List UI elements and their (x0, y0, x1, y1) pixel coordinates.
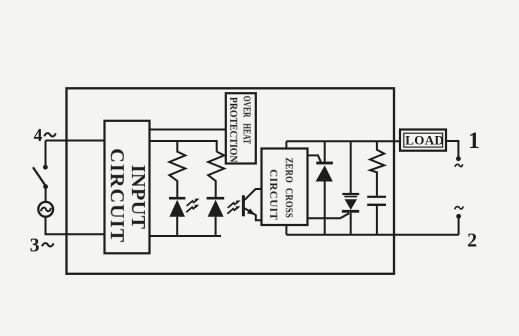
svg-text:CIRCUIT: CIRCUIT (106, 148, 128, 243)
wire terminal 2 to bus (458, 216, 460, 234)
terminal 2 tilde (455, 206, 464, 209)
wire source to terminal 3 line (46, 217, 105, 235)
tilde of label 3 (42, 243, 53, 246)
outer relay enclosure box (67, 88, 395, 273)
LED return bus wire (150, 235, 222, 237)
gate wire T1 (308, 155, 321, 162)
wire ZC bottom stub (285, 225, 287, 235)
input circuit block (105, 121, 150, 254)
thyristor T1 (316, 141, 333, 234)
zero cross circuit block (262, 149, 308, 226)
svg-text:INPUT: INPUT (127, 165, 149, 230)
snubber capacitor C1 (367, 196, 386, 235)
svg-text:3: 3 (30, 236, 40, 257)
svg-text:CIRCUIT: CIRCUIT (267, 169, 279, 220)
terminal 2 dot (456, 214, 461, 219)
svg-text:LOAD: LOAD (405, 133, 444, 148)
light arrows of D1 (186, 199, 199, 213)
gate wire T2 (308, 213, 350, 218)
thyristor T2 (342, 141, 359, 234)
wire load to terminal 1 (446, 141, 458, 157)
LED D2 (207, 197, 225, 236)
phototransistor Q1 (242, 189, 262, 220)
switch S1 (33, 165, 48, 189)
light arrows of D2 toward phototransistor (227, 200, 240, 213)
svg-text:OVER HEAT: OVER HEAT (241, 96, 252, 144)
svg-text:4: 4 (34, 125, 43, 145)
resistor R2 (208, 152, 224, 197)
wire switch to source (45, 188, 47, 202)
resistor R1 (169, 141, 185, 197)
snubber resistor R3 (370, 141, 384, 195)
wire resistor feed (150, 141, 217, 152)
over heat protection block (226, 93, 256, 163)
svg-text:PROTECTION: PROTECTION (227, 97, 238, 163)
load box (400, 130, 446, 151)
bottom output bus wire (286, 234, 458, 236)
wire ZC top stub (285, 141, 287, 148)
svg-text:ZERO CROSS: ZERO CROSS (282, 158, 294, 219)
terminal 1 tilde (455, 164, 463, 167)
svg-text:2: 2 (467, 230, 477, 251)
svg-text:1: 1 (468, 128, 480, 153)
top output bus wire (286, 140, 400, 142)
terminal 1 dot (456, 156, 461, 161)
AC source (38, 202, 53, 217)
wire input circuit to over heat protection (150, 129, 227, 131)
LED D1 (169, 197, 185, 236)
wire terminal 4 to input circuit (46, 141, 105, 166)
